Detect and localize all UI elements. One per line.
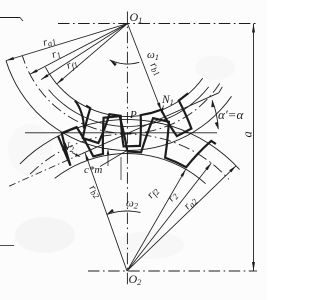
stray mark top-left — [0, 17, 20, 19]
dimension line r_a2 with arrow — [127, 166, 236, 271]
gear 2 root circle r_f2 arc — [55, 154, 206, 184]
omega1 rotation arrow — [110, 60, 140, 64]
svg-text:N1: N1 — [161, 94, 174, 107]
gear 1 root circle r_f1 arc — [45, 67, 202, 116]
scan mottling (decorative) — [15, 217, 75, 253]
svg-text:a: a — [241, 131, 255, 137]
dimension line r_b1 from O1 to N1 with arrow — [128, 24, 162, 111]
dimension line a (center distance) with arrows — [253, 24, 255, 272]
omega2 rotation arrow — [107, 211, 141, 215]
dimension line r_a1 with arrow — [6, 24, 128, 61]
dimension line r_b2 from O2 to N2 with arrow — [85, 152, 127, 271]
gear 2 pitch circle r2 arc (dash-dot) — [30, 134, 229, 179]
wire tick at upper end of line of action — [219, 87, 223, 93]
svg-text:r1: r1 — [50, 47, 62, 62]
svg-text:α′=α: α′=α — [218, 107, 244, 122]
gear 1 base circle r_b1 arc — [49, 87, 209, 127]
svg-text:P: P — [129, 109, 137, 121]
gear 1 tooth profiles (thick) — [75, 101, 84, 129]
wire vertical center line O1-O2 — [126, 12, 128, 288]
svg-text:c*m: c*m — [84, 164, 102, 176]
gear 2 tooth profiles (thick) — [58, 116, 216, 167]
gear 1 addendum circle r_a1 arc — [6, 61, 232, 151]
wire line of action N2-N1 (solid part) — [82, 93, 219, 154]
angle arc alpha'=alpha with arrows — [212, 100, 218, 129]
wire horizontal center line through O1 — [58, 23, 257, 25]
svg-text:rb1: rb1 — [147, 60, 165, 78]
dimension line r_f2 with arrow — [127, 169, 186, 271]
wire horizontal center line through O2 — [88, 270, 257, 272]
wire line of action extension beyond N2 (dash-dot) — [9, 154, 82, 187]
wire common tangent line through pitch point — [25, 132, 217, 134]
svg-text:ra1: ra1 — [41, 34, 57, 50]
svg-text:O2: O2 — [129, 272, 143, 287]
svg-text:ra2: ra2 — [181, 194, 200, 213]
svg-text:rf2: rf2 — [145, 184, 162, 201]
dimension line r2 with arrow — [127, 163, 211, 271]
gear 1 pitch circle r1 arc (dash-dot) — [22, 56, 220, 134]
dimension line r1 with arrow — [30, 24, 128, 75]
svg-text:N2: N2 — [61, 141, 75, 154]
dimension line r_f1 with arrow — [57, 24, 128, 84]
stray mark left edge — [0, 245, 14, 247]
gear 2 addendum circle r_a2 arc — [20, 120, 240, 170]
dimension line to base circle r_b1 left with arrow — [41, 24, 127, 80]
svg-text:O1: O1 — [130, 10, 143, 25]
svg-text:ω2: ω2 — [126, 198, 139, 211]
